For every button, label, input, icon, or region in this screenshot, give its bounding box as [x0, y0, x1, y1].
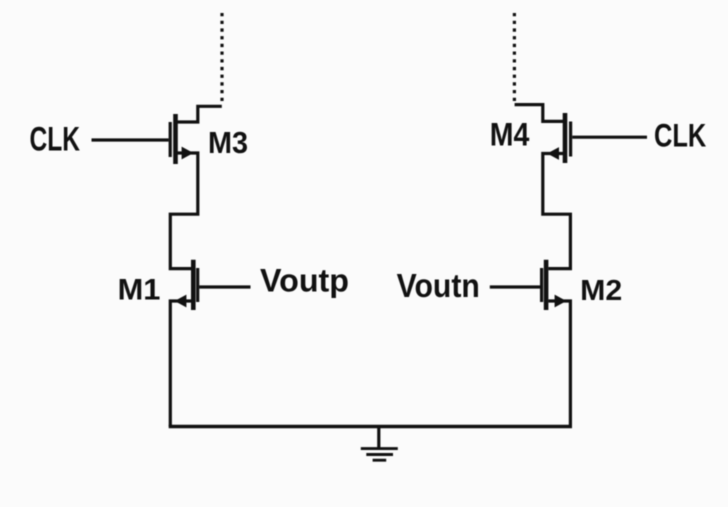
wire: M4 drain connection (jog from dashed line to M4 drain): [515, 105, 564, 122]
transistor M3 gate bar: [169, 122, 172, 157]
transistor M1 channel bar: [191, 260, 196, 310]
transistor M2 channel bar: [544, 260, 549, 310]
wire: CLK lead to M4 gate: [572, 136, 647, 139]
transistor M1 gate bar: [196, 268, 199, 302]
ground: [361, 427, 398, 461]
transistor M4 gate bar: [569, 122, 572, 157]
transistor M1 source arrow: [175, 295, 187, 308]
wire: M1 gate lead to Voutp: [199, 285, 250, 288]
wire: M2 source lead down to ground rail: [548, 301, 570, 427]
wire: M2 gate lead to Voutn: [490, 285, 540, 288]
transistor M2 gate bar: [540, 268, 543, 302]
transistor M2 source arrow: [555, 295, 567, 308]
transistor M4 channel bar: [563, 113, 568, 163]
transistor M3 source arrow: [182, 147, 194, 160]
transistor M3 channel bar: [173, 114, 178, 164]
svg-text:Voutn: Voutn: [397, 267, 480, 304]
svg-text:Voutp: Voutp: [260, 263, 349, 299]
wire: dashed drain supply line above M4: [513, 13, 516, 101]
wire: CLK lead to M3 gate: [92, 138, 169, 141]
wire: common source bottom rail: [169, 425, 572, 428]
svg-text:CLK: CLK: [654, 118, 706, 154]
wire: M3 source lead and jog down-left to M1 drain: [170, 153, 198, 269]
wire: M1 source lead down to ground rail: [170, 301, 192, 427]
wire: M3 drain connection (jog from dashed line to M3 drain): [177, 106, 222, 122]
svg-text:M1: M1: [118, 274, 161, 307]
svg-text:CLK: CLK: [30, 121, 81, 159]
wire: M4 source lead and jog down-right to M2 drain: [543, 154, 571, 269]
svg-text:M3: M3: [208, 125, 248, 160]
svg-text:M2: M2: [580, 275, 622, 307]
svg-text:M4: M4: [490, 117, 530, 153]
wire: dashed drain supply line above M3: [220, 13, 223, 101]
transistor M4 source arrow: [547, 147, 559, 160]
